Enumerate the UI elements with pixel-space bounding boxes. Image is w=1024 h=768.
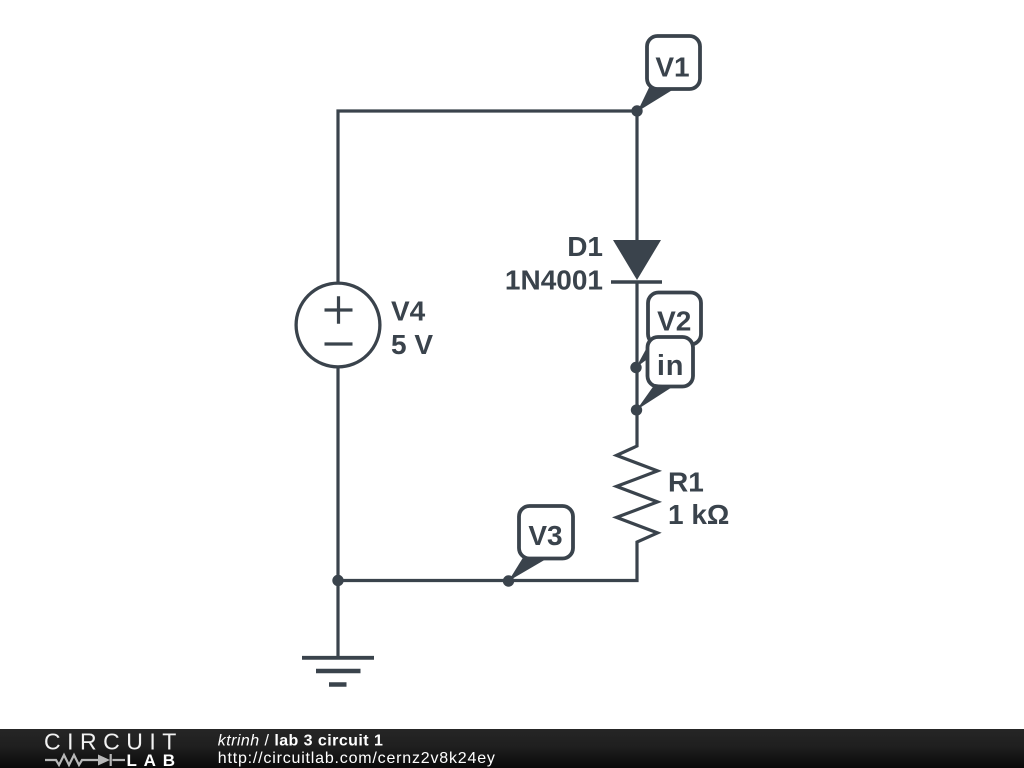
svg-text:R1: R1 bbox=[668, 466, 704, 497]
svg-text:V4: V4 bbox=[391, 296, 426, 327]
svg-text:D1: D1 bbox=[567, 231, 603, 262]
svg-text:in: in bbox=[657, 350, 684, 382]
svg-text:LAB: LAB bbox=[127, 751, 182, 768]
svg-text:V2: V2 bbox=[657, 306, 691, 337]
svg-text:1N4001: 1N4001 bbox=[505, 265, 603, 296]
svg-text:ktrinh / lab 3 circuit 1: ktrinh / lab 3 circuit 1 bbox=[218, 732, 384, 749]
svg-text:V1: V1 bbox=[655, 52, 689, 83]
svg-text:http://circuitlab.com/cernz2v8: http://circuitlab.com/cernz2v8k24ey bbox=[218, 750, 496, 767]
svg-text:V3: V3 bbox=[528, 520, 562, 551]
svg-text:5 V: 5 V bbox=[391, 329, 433, 360]
svg-text:1 kΩ: 1 kΩ bbox=[668, 499, 729, 530]
